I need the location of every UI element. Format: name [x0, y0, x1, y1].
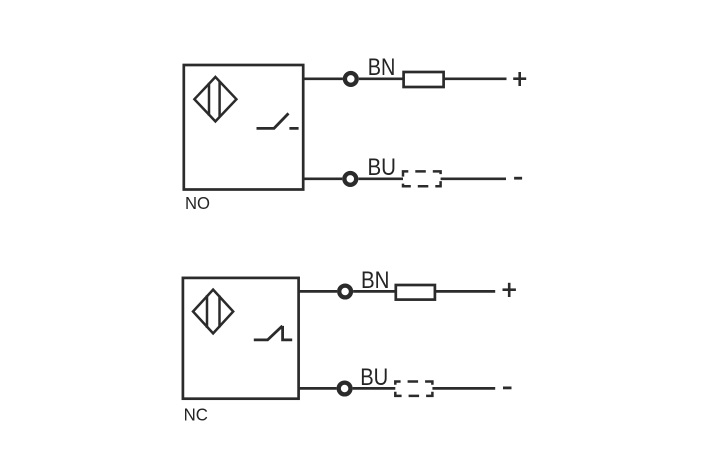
svg-text:BU: BU — [360, 364, 388, 391]
svg-text:BU: BU — [368, 154, 397, 181]
svg-text:NC: NC — [184, 405, 208, 425]
svg-text:BN: BN — [361, 267, 390, 294]
svg-text:NO: NO — [185, 193, 210, 213]
svg-text:BN: BN — [368, 54, 396, 81]
